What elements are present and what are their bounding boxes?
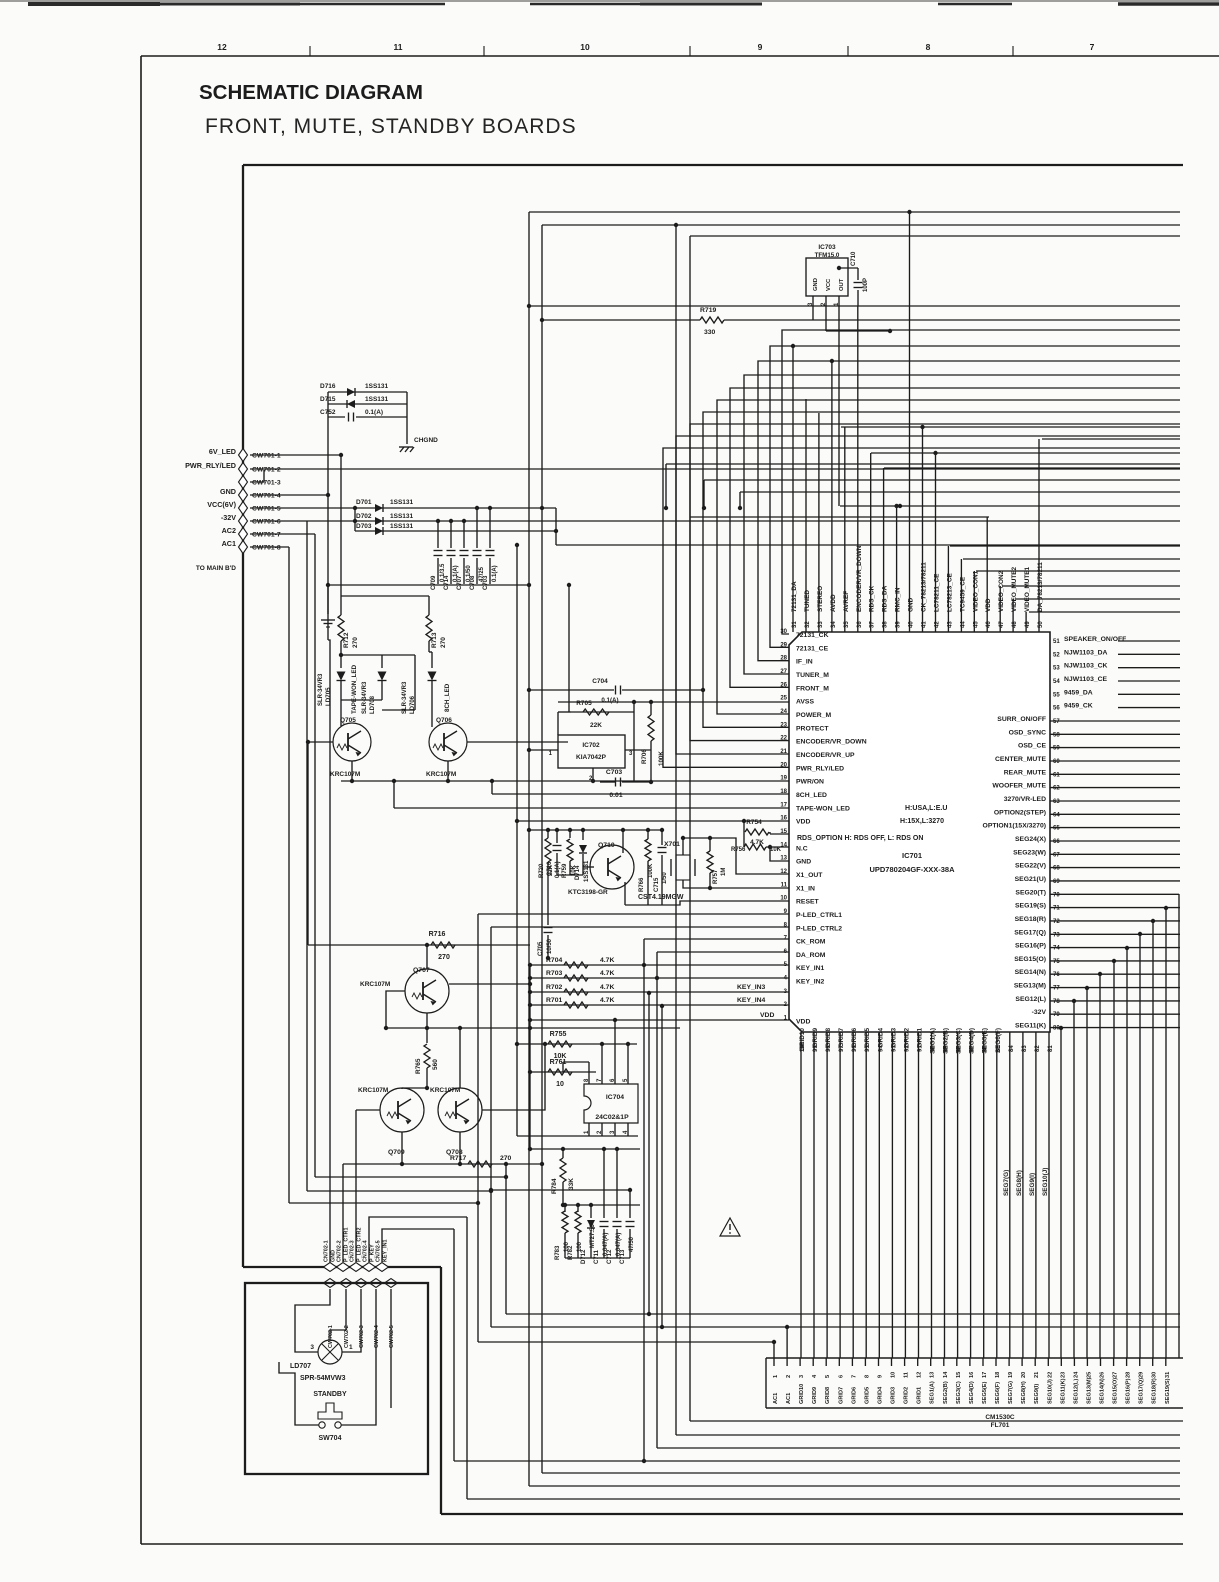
- svg-text:VCC(6V): VCC(6V): [207, 500, 236, 509]
- wire Q705 emitter: [351, 761, 353, 781]
- svg-text:76: 76: [1053, 972, 1060, 978]
- connector pin CW701-6: [239, 515, 248, 528]
- svg-text:VDD: VDD: [796, 1019, 810, 1026]
- svg-text:33K: 33K: [568, 1178, 575, 1190]
- bottom bus y1448: [657, 1447, 1180, 1449]
- svg-text:10: 10: [780, 896, 787, 902]
- svg-text:GND: GND: [813, 278, 819, 291]
- bus wire top fan y453: [871, 452, 1180, 454]
- svg-text:VDD: VDD: [985, 598, 992, 612]
- LD707 wires: [330, 1289, 346, 1340]
- svg-text:KEY_IN4: KEY_IN4: [737, 997, 766, 1004]
- wire seg/grid drop pin 98: [826, 1032, 828, 1358]
- regulator IC703 TFM15.0: [806, 258, 848, 296]
- led LD705 TAPE-WON_LED: [340, 655, 342, 668]
- svg-text:OUT: OUT: [839, 278, 845, 291]
- svg-text:33: 33: [818, 621, 824, 628]
- svg-text:FRONT, MUTE, STANDBY BOARDS: FRONT, MUTE, STANDBY BOARDS: [205, 115, 577, 138]
- svg-text:R705: R705: [576, 700, 592, 707]
- wire IC701 right pin 65 run: [1050, 827, 1180, 829]
- bus wire IC701 pin22: [690, 424, 1180, 741]
- svg-text:24: 24: [780, 709, 787, 715]
- wire IC701 top pin 38 riser: [883, 468, 885, 632]
- svg-text:R757: R757: [713, 869, 719, 884]
- wire seg/grid drop pin 95: [865, 1032, 867, 1358]
- wire Q710 base: [583, 866, 594, 868]
- standby board border: [245, 1283, 428, 1474]
- svg-text:GRID3: GRID3: [890, 1028, 897, 1048]
- bus wire top fan y439: [1042, 438, 1180, 440]
- svg-text:IF_IN: IF_IN: [796, 659, 813, 666]
- svg-text:C714: C714: [444, 575, 450, 590]
- resistor R784: [562, 1149, 564, 1158]
- svg-text:15: 15: [780, 829, 787, 835]
- svg-text:R706: R706: [641, 749, 648, 764]
- wire IC701 top pin 43 riser: [947, 546, 949, 632]
- connector pin CN702-2: [337, 1263, 350, 1272]
- right column wire x1074: [1073, 1001, 1075, 1358]
- diode D714: [582, 830, 584, 840]
- right column wire x1127: [1126, 948, 1128, 1358]
- wire IC701 top pin 34 riser: [831, 361, 833, 632]
- svg-text:WOOFER_MUTE: WOOFER_MUTE: [992, 783, 1046, 790]
- svg-text:12: 12: [917, 1372, 923, 1378]
- svg-text:R703: R703: [546, 970, 562, 977]
- svg-text:AC2: AC2: [222, 526, 236, 535]
- svg-text:1/50: 1/50: [662, 872, 668, 884]
- svg-text:SEG8(H): SEG8(H): [1016, 1170, 1023, 1196]
- svg-text:SEG10(J): SEG10(J): [1042, 1168, 1049, 1196]
- FL701 pin 30: [1152, 1358, 1154, 1366]
- svg-text:21: 21: [1034, 1372, 1040, 1378]
- svg-text:52: 52: [1053, 652, 1060, 658]
- wire pin6 DA_ROM: [657, 951, 789, 953]
- svg-text:270: 270: [440, 637, 447, 648]
- transistor Q707: [405, 969, 449, 1013]
- svg-text:CW701-3: CW701-3: [252, 480, 281, 487]
- bus wire IC701 pin26: [730, 388, 1180, 687]
- fan drop x900 pin39: [898, 504, 902, 508]
- svg-text:1SS131: 1SS131: [390, 523, 414, 530]
- svg-text:VIDEO_CON2: VIDEO_CON2: [998, 570, 1005, 612]
- wire CW701-8 AC1: [250, 546, 289, 548]
- svg-text:SLR-34VR3: SLR-34VR3: [362, 681, 368, 714]
- wire seg/grid drop pin 84: [1009, 1032, 1011, 1358]
- fan drop x666: [665, 464, 667, 508]
- svg-text:25: 25: [780, 696, 787, 702]
- wire IC701 top pin 50 riser: [1038, 439, 1040, 632]
- wire AC1 to FL701 y1342: [478, 1341, 774, 1343]
- svg-text:17: 17: [780, 802, 787, 808]
- svg-text:TFM15.0: TFM15.0: [815, 252, 840, 259]
- bottom bus y1473: [542, 1472, 1180, 1474]
- svg-text:64: 64: [1053, 812, 1060, 818]
- svg-text:59: 59: [1053, 746, 1060, 752]
- crystal X701: [676, 855, 690, 880]
- svg-text:SEG18(R): SEG18(R): [1152, 1378, 1158, 1404]
- svg-text:VDD: VDD: [796, 819, 810, 826]
- wire Q705 base left: [308, 741, 333, 743]
- bottom bus y1499: [467, 1498, 1180, 1500]
- svg-text:270: 270: [438, 954, 450, 961]
- wire Q706 emitter: [447, 761, 449, 781]
- bus wire IC701 pin30: [782, 330, 1180, 634]
- svg-text:SEG14(N): SEG14(N): [1015, 969, 1046, 976]
- wire IC701 top pin 32 riser: [805, 399, 807, 632]
- svg-text:57: 57: [1053, 719, 1060, 725]
- transistor Q705: [333, 723, 371, 761]
- wire Q707 collector right: [449, 983, 530, 985]
- wire IC701 right pin 64 run: [1050, 813, 1180, 815]
- resistor R782: [577, 1205, 579, 1212]
- transistor Q708: [438, 1088, 482, 1132]
- connector pin CW702-2: [340, 1279, 353, 1288]
- wire Q707 base: [386, 991, 405, 1028]
- svg-text:GND: GND: [796, 859, 811, 866]
- svg-text:AC1: AC1: [222, 539, 236, 548]
- svg-text:GRID5: GRID5: [864, 1028, 871, 1048]
- svg-text:TAPE-WON_LED: TAPE-WON_LED: [351, 664, 358, 714]
- svg-text:CHGND: CHGND: [414, 437, 438, 444]
- svg-text:C711: C711: [594, 1249, 600, 1264]
- svg-text:CW702-1: CW702-1: [328, 1325, 334, 1348]
- svg-text:KRC107M: KRC107M: [426, 771, 456, 778]
- svg-text:D701: D701: [356, 499, 372, 506]
- resistor R712: [338, 615, 344, 641]
- svg-text:GRID5: GRID5: [864, 1387, 870, 1404]
- svg-text:R759: R759: [562, 863, 568, 878]
- svg-text:14: 14: [943, 1371, 949, 1378]
- svg-text:SEG5(E): SEG5(E): [982, 1381, 988, 1404]
- svg-text:46: 46: [986, 621, 992, 628]
- wire pin8 P-LED_CTRL2: [491, 926, 789, 928]
- capacitor C716: [556, 830, 558, 843]
- resistor R755: [517, 1043, 637, 1045]
- FL701 pin 29: [1139, 1358, 1141, 1366]
- svg-text:75: 75: [1053, 959, 1060, 965]
- svg-text:9: 9: [878, 1375, 884, 1378]
- svg-text:CW702-4: CW702-4: [374, 1325, 380, 1348]
- diode D716: [328, 391, 407, 393]
- svg-text:19: 19: [1008, 1372, 1014, 1378]
- riser x491 P-LED_CTRL2: [490, 927, 492, 1327]
- svg-text:47/50: 47/50: [629, 1236, 635, 1252]
- connector pin CW702-1: [324, 1279, 337, 1288]
- svg-text:1SS131: 1SS131: [390, 499, 414, 506]
- svg-text:SW704: SW704: [319, 1435, 342, 1442]
- svg-text:41: 41: [922, 621, 928, 628]
- mid bus y1028: [386, 1027, 680, 1029]
- svg-text:SPR-54MVW3: SPR-54MVW3: [300, 1375, 346, 1382]
- svg-text:OPTION2(STEP): OPTION2(STEP): [994, 809, 1046, 816]
- svg-text:8CH_LED: 8CH_LED: [796, 792, 827, 799]
- svg-text:SEG13(M): SEG13(M): [1014, 983, 1046, 990]
- capacitor C709: [437, 521, 439, 548]
- svg-text:C703: C703: [483, 575, 489, 590]
- svg-text:27: 27: [1113, 1372, 1119, 1378]
- front board border top: [243, 164, 1183, 166]
- svg-text:Q705: Q705: [340, 717, 356, 724]
- svg-text:SEG19(S): SEG19(S): [1165, 1378, 1171, 1404]
- svg-text:TAPE-WON_LED: TAPE-WON_LED: [796, 805, 850, 812]
- svg-text:SEG18(R): SEG18(R): [1015, 916, 1046, 923]
- svg-text:8: 8: [926, 42, 931, 52]
- svg-text:GRID8: GRID8: [825, 1387, 831, 1404]
- svg-text:R756: R756: [731, 847, 746, 853]
- svg-text:SEG1(A): SEG1(A): [930, 1381, 936, 1404]
- svg-text:GRID9: GRID9: [812, 1028, 819, 1048]
- wire pin7 CK_ROM: [644, 938, 789, 940]
- svg-text:AC1: AC1: [786, 1393, 792, 1404]
- connector pin CW701-7: [239, 528, 248, 541]
- svg-text:1: 1: [349, 1344, 353, 1351]
- bus loop vertical x690: [689, 236, 691, 1421]
- wire IC701 right pin 78 run: [1050, 1000, 1180, 1002]
- svg-text:0.01: 0.01: [609, 792, 622, 799]
- svg-text:SEG12(L): SEG12(L): [1015, 996, 1046, 1003]
- svg-text:D714: D714: [575, 865, 581, 880]
- wire IC701 right pin 76 run: [1050, 973, 1180, 975]
- capacitor C704: [529, 689, 614, 691]
- wire IC704 bottom bus: [517, 1135, 638, 1137]
- capacitor C752: [328, 416, 345, 418]
- FL701 pin 6: [838, 1358, 840, 1366]
- svg-text:D715: D715: [320, 396, 336, 403]
- svg-text:TC9459_CE: TC9459_CE: [959, 576, 966, 612]
- wire Q709 base: [356, 1109, 380, 1111]
- svg-text:9459_DA: 9459_DA: [1064, 689, 1093, 696]
- svg-text:SEG3(C): SEG3(C): [956, 1381, 962, 1404]
- ruler line: [141, 55, 1219, 57]
- svg-text:D702: D702: [356, 513, 372, 520]
- svg-text:GND: GND: [220, 487, 236, 496]
- transistor Q706: [429, 723, 467, 761]
- svg-text:SEG11(K): SEG11(K): [1060, 1378, 1066, 1404]
- wire y517 to pin46: [690, 516, 989, 518]
- wire seg/grid drop pin 100: [800, 1032, 802, 1358]
- svg-text:CK_ROM: CK_ROM: [796, 939, 826, 946]
- svg-text:R766: R766: [639, 877, 645, 892]
- svg-text:SEG2(B): SEG2(B): [943, 1381, 949, 1404]
- -32V riser x307: [306, 521, 308, 1191]
- svg-text:7: 7: [851, 1375, 857, 1378]
- led bottom join: [341, 699, 382, 701]
- drop x657 DA_ROM: [656, 952, 658, 1448]
- svg-text:10: 10: [580, 42, 590, 52]
- svg-text:24: 24: [1073, 1371, 1079, 1378]
- svg-text:KRC107M: KRC107M: [358, 1087, 388, 1094]
- warning triangle: [720, 1218, 740, 1236]
- svg-text:GRID7: GRID7: [838, 1387, 844, 1404]
- svg-text:R765: R765: [415, 1058, 422, 1074]
- wire 6V_LED vertical: [327, 392, 329, 614]
- svg-text:42: 42: [935, 621, 941, 628]
- bus loop y236: [690, 235, 1180, 237]
- wire pin19 PWR/ON run: [341, 780, 789, 782]
- FL701 pin 12: [917, 1358, 919, 1366]
- svg-text:1M: 1M: [721, 868, 727, 876]
- svg-text:14: 14: [780, 842, 787, 848]
- wire IC703 vcc stub: [826, 330, 890, 332]
- svg-text:SEG14(N): SEG14(N): [1100, 1378, 1106, 1404]
- FL701 pin 14: [943, 1358, 945, 1366]
- svg-text:R754: R754: [746, 819, 762, 826]
- wire CW701-2 PWR_RLY/LED long: [250, 468, 1180, 470]
- svg-text:GND: GND: [908, 597, 915, 612]
- svg-text:10/50: 10/50: [547, 938, 553, 954]
- resistor R705: [557, 712, 559, 735]
- svg-text:35: 35: [844, 621, 850, 628]
- svg-text:R755: R755: [550, 1031, 567, 1038]
- right column wire x1179: [1178, 894, 1180, 1358]
- bus loop vertical x676: [675, 225, 677, 1435]
- sub gnd join: [557, 874, 583, 876]
- svg-text:3270/VR-LED: 3270/VR-LED: [1004, 796, 1046, 803]
- svg-text:26: 26: [1100, 1372, 1106, 1378]
- svg-text:74: 74: [1053, 946, 1060, 952]
- svg-text:20: 20: [780, 762, 787, 768]
- svg-text:SEG23(W): SEG23(W): [1013, 849, 1046, 856]
- wire IC702 pin2: [592, 768, 594, 782]
- front board border bottom: [441, 1513, 1183, 1515]
- wire IC701 top pin 49 riser: [1025, 612, 1027, 632]
- right column wire x1114: [1113, 961, 1115, 1358]
- svg-text:RESET: RESET: [796, 899, 820, 906]
- capacitor C703: [615, 778, 617, 787]
- wire IC701 top pin 35 riser: [844, 427, 846, 632]
- regulator IC702 KIA7042P: [558, 735, 625, 768]
- svg-text:RMC_IN: RMC_IN: [895, 587, 902, 612]
- wire IC701 top pin 40 riser: [909, 212, 911, 632]
- bus wire IC701 pin20: [663, 448, 1180, 767]
- resistor R756: [744, 844, 766, 850]
- led top bus: [341, 654, 415, 656]
- wire seg/grid drop pin 91: [918, 1032, 920, 1358]
- transistor Q710: [590, 845, 634, 889]
- svg-text:IC702: IC702: [582, 742, 600, 749]
- svg-text:60: 60: [1053, 759, 1060, 765]
- svg-text:19: 19: [780, 776, 787, 782]
- wire IC701 right pin 73 run: [1050, 933, 1180, 935]
- svg-text:55: 55: [1053, 692, 1060, 698]
- connector pin CN702-4: [363, 1263, 376, 1272]
- svg-text:23: 23: [1060, 1372, 1066, 1378]
- bottom bus y1435: [676, 1434, 1180, 1436]
- wire IC701 right pin 72 run: [1050, 920, 1180, 922]
- svg-text:CN702-2: CN702-2: [337, 1240, 343, 1262]
- resistor R757: [709, 838, 711, 851]
- svg-text:KEY_IN1: KEY_IN1: [383, 1240, 389, 1262]
- wire y306: [529, 305, 1180, 307]
- svg-text:61: 61: [1053, 772, 1060, 778]
- bus wire IC701 pin23: [703, 412, 1180, 727]
- FL701 pin 13: [930, 1358, 932, 1366]
- connector pin CW701-1: [239, 449, 248, 462]
- bus loop vertical x542: [541, 225, 543, 1473]
- bus wire top fan y546: [950, 545, 1180, 547]
- wire seg/grid drop pin 93: [891, 1032, 893, 1358]
- svg-text:28: 28: [1126, 1372, 1132, 1378]
- svg-text:X1_IN: X1_IN: [796, 885, 815, 892]
- resistor R703: [530, 977, 789, 979]
- svg-text:D712: D712: [581, 1249, 587, 1264]
- svg-text:100P: 100P: [863, 278, 869, 292]
- caps bottom bus y584: [328, 584, 529, 586]
- wire seg/grid drop pin 89: [944, 1032, 946, 1358]
- connector pin CW702-3: [355, 1279, 368, 1288]
- svg-text:28: 28: [780, 656, 787, 662]
- wire IC701 right pin 69 run: [1050, 880, 1180, 882]
- bus wire top fan y464: [666, 463, 1180, 465]
- svg-text:270: 270: [500, 1155, 512, 1162]
- connector pin CW701-2: [239, 463, 248, 476]
- drop x662 KEY_IN4: [661, 1006, 663, 1327]
- svg-text:72131_CK: 72131_CK: [796, 632, 829, 639]
- resistor R702: [530, 991, 789, 993]
- resistor R716: [308, 944, 530, 946]
- riser CN702-4 P_KEY: [369, 1217, 467, 1262]
- wire pin13 GND stub: [770, 847, 789, 861]
- right column wire x1100: [1099, 974, 1101, 1358]
- drop x649 KEY_IN3: [648, 993, 650, 1314]
- svg-text:OSD_CE: OSD_CE: [1018, 743, 1046, 750]
- svg-text:R717: R717: [450, 1155, 466, 1162]
- svg-text:4.7K: 4.7K: [600, 957, 614, 964]
- wire IC701 top pin 41 riser: [922, 427, 924, 632]
- wire IC701 right pin 57 run: [1050, 720, 1180, 722]
- wire seg/grid drop pin 85: [996, 1032, 998, 1358]
- wire IC701 right pin 74 run: [1050, 947, 1180, 949]
- svg-text:44: 44: [960, 621, 966, 628]
- fan drop x740: [739, 492, 741, 508]
- svg-text:77: 77: [1053, 986, 1060, 992]
- svg-text:LD708: LD708: [370, 695, 376, 714]
- AC2 riser x315: [314, 534, 316, 1177]
- svg-text:100K: 100K: [658, 751, 665, 766]
- svg-text:FL701: FL701: [991, 1422, 1010, 1429]
- wire X701 bottom: [683, 880, 710, 888]
- wire pin25 AVSS: [558, 701, 789, 703]
- svg-text:30: 30: [780, 629, 787, 635]
- svg-text:3: 3: [799, 1375, 805, 1378]
- svg-text:SEG4(D): SEG4(D): [969, 1381, 975, 1404]
- svg-text:30: 30: [1152, 1372, 1158, 1378]
- svg-text:PWR_RLY/LED: PWR_RLY/LED: [796, 765, 844, 772]
- svg-text:STANDBY: STANDBY: [313, 1391, 347, 1398]
- svg-text:TUNED: TUNED: [804, 590, 811, 612]
- wire pin14 NC stub: [766, 846, 789, 848]
- svg-text:POWER_M: POWER_M: [796, 712, 831, 719]
- wire IC701 top pin 42 riser: [935, 453, 937, 632]
- svg-text:CK_78213/78211: CK_78213/78211: [921, 562, 928, 612]
- resistor R720: [545, 838, 551, 862]
- svg-text:N.C: N.C: [796, 845, 808, 852]
- bus loop y225: [542, 224, 1180, 226]
- wire Q709 collector: [402, 1087, 427, 1089]
- FL701 pin 16: [969, 1358, 971, 1366]
- diode D715: [328, 403, 407, 405]
- svg-text:NJW1103_CK: NJW1103_CK: [1064, 663, 1108, 670]
- svg-text:GRID6: GRID6: [851, 1387, 857, 1404]
- svg-text:SEG16(P): SEG16(P): [1126, 1378, 1132, 1404]
- svg-text:18: 18: [780, 789, 787, 795]
- wire seg/grid drop pin 90: [931, 1032, 933, 1358]
- svg-text:SEG16(P): SEG16(P): [1015, 943, 1046, 950]
- wire IC701 top pin 45 riser: [973, 571, 975, 632]
- svg-text:40: 40: [909, 621, 915, 628]
- wire pin16 VDD: [517, 820, 789, 822]
- bottom bus y1486: [529, 1485, 1180, 1487]
